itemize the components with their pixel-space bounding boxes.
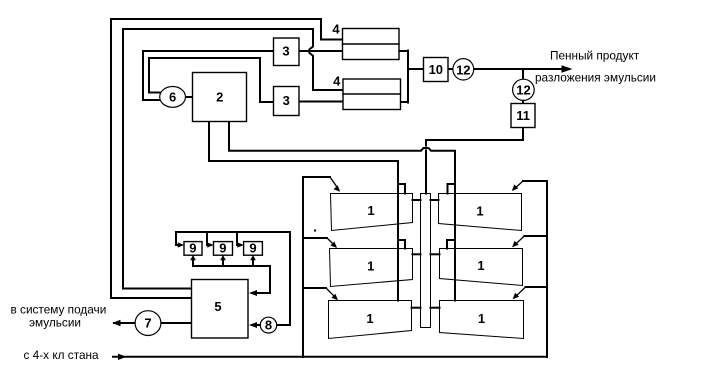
arrowhead cell row1 left: [334, 185, 341, 192]
bridge row2 left: [413, 253, 421, 255]
arrowhead into doser 9a: [178, 242, 185, 247]
flotation cell 1 (row1 right): [439, 194, 522, 231]
arrowhead up into doser 9c: [250, 255, 256, 260]
wire: block 3 lower to heat exchanger 4 lower: [300, 101, 343, 103]
svg-text:разложения эмульсии: разложения эмульсии: [535, 70, 656, 84]
wire: circle 6 to block 2: [184, 96, 192, 98]
wire: block 2 right output down to right feed line (hop over block-11 line): [229, 122, 455, 301]
svg-text:9: 9: [249, 240, 256, 255]
svg-text:1: 1: [367, 259, 374, 274]
arrowhead up into doser 9b: [220, 255, 226, 260]
tank 5: [192, 280, 249, 339]
svg-text:в систему подачи: в систему подачи: [11, 303, 107, 317]
wire: second line from lower heat-exchanger top section to tank 5 (jog over crossing line): [123, 29, 343, 289]
wire: circle 12 to foam product arrow: [463, 68, 562, 70]
arrowhead cell row2 left: [330, 242, 337, 249]
arrow stub row2 left: [303, 237, 327, 239]
svg-text:с 4-х кл стана: с 4-х кл стана: [24, 348, 100, 362]
wire: circle 8 to tank 5: [252, 324, 261, 326]
wire: inlet elbow row1 right: [448, 184, 456, 194]
wire: inlet elbow row2 right: [447, 240, 455, 249]
wire: stub under doser 9b: [222, 260, 224, 267]
svg-text:12: 12: [516, 82, 530, 97]
wire: circle 8 riser to dosers feed line: [176, 232, 290, 325]
wire: stub under doser 9a: [192, 260, 194, 267]
arrowhead bottom feed line: [118, 354, 127, 360]
flotation cell 1 (row3 right): [440, 301, 524, 339]
circle 6: [160, 87, 186, 108]
svg-text:1: 1: [366, 311, 373, 326]
central distribution column: [421, 194, 431, 328]
block 11: [511, 104, 535, 128]
svg-text:11: 11: [516, 108, 530, 123]
svg-text:эмульсии: эмульсии: [29, 316, 81, 330]
stray dot: [314, 230, 316, 232]
svg-text:1: 1: [477, 258, 484, 273]
bridge row3 left: [412, 307, 421, 309]
svg-text:6: 6: [169, 89, 176, 104]
svg-text:4: 4: [333, 73, 341, 88]
wire: right collector of heat exchangers to block 10: [399, 51, 424, 103]
flotation cell 1 (row3 left): [329, 301, 412, 339]
flotation cell 1 (row2 right): [440, 249, 523, 286]
circle 12b: [513, 79, 535, 100]
arrowhead into doser 9c: [237, 242, 244, 247]
arrowhead cell row1 right: [512, 184, 519, 191]
doser 9a: [184, 242, 202, 256]
svg-text:7: 7: [144, 316, 151, 331]
arrowhead into doser 9b: [207, 242, 214, 247]
wire: inlet elbow row1 left: [398, 184, 405, 194]
machine box right edge: [546, 181, 548, 357]
wire: drop to doser 9b: [207, 232, 211, 245]
wire: line A to block 3 upper with branch down to circle 6: [143, 51, 273, 100]
svg-text:5: 5: [214, 299, 221, 314]
heat exchanger 4 upper: [343, 29, 400, 60]
arrowhead cell row3 right: [513, 293, 520, 300]
wire: block 11 down, left and down to central column (gap at hop): [426, 128, 523, 194]
svg-text:3: 3: [283, 93, 290, 108]
machine box left edge: [302, 177, 304, 357]
svg-text:1: 1: [476, 204, 483, 219]
svg-text:2: 2: [216, 89, 223, 104]
svg-text:9: 9: [189, 240, 196, 255]
svg-text:3: 3: [282, 44, 289, 59]
arrowhead into tank 5 from doser return: [249, 290, 257, 296]
arrow stub row3 right: [526, 286, 548, 288]
circle 8: [260, 317, 276, 333]
heat exchanger 4 lower: [343, 79, 401, 110]
svg-text:1: 1: [478, 311, 485, 326]
svg-text:4: 4: [332, 22, 340, 37]
doser 9b: [214, 242, 233, 256]
wire: dosers return line to tank 5: [193, 266, 270, 293]
block 2: [193, 73, 247, 122]
arrowhead foam product: [562, 65, 573, 73]
bottom feed line from mill (also machine box bottom): [113, 356, 547, 358]
bridge row1 left: [413, 199, 421, 201]
arrowhead up into doser 9a: [190, 255, 196, 260]
wire: tank 5 through pump 7 to emulsion supply arrow: [114, 322, 192, 324]
arrowhead emulsion supply (left): [112, 320, 120, 326]
circle 7: [135, 311, 161, 336]
wire: block 3 upper to heat exchanger 4 upper (gap at jog): [299, 50, 342, 52]
bridge row3 right: [431, 307, 440, 309]
flotation cell 1 (row2 left): [330, 249, 413, 287]
svg-text:Пенный продукт: Пенный продукт: [550, 49, 640, 63]
arrow stub row1 right: [523, 180, 547, 182]
block 10: [424, 58, 449, 82]
circle 12a: [453, 59, 474, 80]
svg-text:10: 10: [429, 62, 443, 77]
doser 9c: [244, 242, 263, 256]
flotation cell 1 (row1 left): [331, 194, 413, 231]
svg-text:12: 12: [456, 62, 470, 77]
wire: block 10 to circle 12: [448, 68, 454, 70]
block 3 lower: [274, 87, 300, 116]
wire: stub under doser 9c: [252, 260, 254, 267]
arrow stub row3 left: [303, 287, 326, 289]
arrow stub row1 left: [303, 176, 330, 178]
bridge row2 right: [431, 253, 440, 255]
arrowhead cell row3 left: [331, 294, 338, 301]
svg-text:1: 1: [367, 203, 374, 218]
block 3 upper: [274, 38, 300, 66]
svg-text:8: 8: [265, 318, 272, 333]
wire: line B to block 3 lower with branch down to circle 6: [149, 58, 273, 102]
wire: inlet elbow row2 left: [398, 240, 405, 249]
bridge row1 right: [431, 199, 439, 201]
arrowhead cell row2 right: [512, 241, 519, 248]
arrowhead into tank 5 from circle 8: [249, 322, 257, 328]
wire: tee down to circle 12b and block 11: [522, 69, 524, 104]
arrow stub row2 right: [524, 235, 547, 237]
wire: block 2 left output down to left feed line of flotation machine: [209, 122, 398, 301]
wire: outer line from upper heat-exchanger top section to tank 5: [111, 19, 342, 298]
svg-text:9: 9: [219, 240, 226, 255]
wire: drop to doser 9c: [237, 232, 241, 245]
